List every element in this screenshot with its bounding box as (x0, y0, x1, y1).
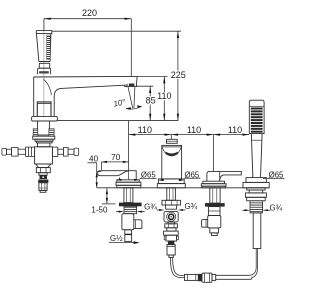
svg-text:220: 220 (82, 8, 97, 18)
unit B: below-deck stem (167, 188, 176, 201)
dimension 220 (44, 19, 131, 77)
side view: body pedestal panel (37, 102, 51, 117)
side view: handle grip hatch (47, 35, 51, 60)
side view: clamp stud right (49, 129, 54, 136)
side view: tail neck (39, 173, 47, 176)
side view: left supply arm (2, 147, 35, 156)
label diameter 65 unit A (140, 177, 157, 179)
side view: right supply arm (52, 147, 78, 156)
side view: handle lower lines (39, 62, 50, 64)
unit A: threaded shank (124, 206, 137, 213)
spray angle arc (126, 106, 142, 109)
svg-text:G¾: G¾ (144, 203, 157, 212)
hose right section to shower (216, 249, 258, 280)
bottom dimension line (129, 134, 250, 136)
unit D: G3/4 arrows (245, 209, 251, 211)
unit D: hand shower head (249, 100, 264, 133)
dimension 225 (177, 31, 179, 120)
unit A: G3/4 arrows (119, 211, 125, 213)
side view: spout inner channel curve (43, 79, 51, 95)
unit A: diameter 65 arrows (116, 179, 122, 181)
svg-text:G¾: G¾ (269, 204, 282, 213)
side view: lever handle centerline (43, 19, 45, 117)
side view: lower taper (36, 164, 51, 168)
unit B: G3/4 arrows (159, 209, 165, 211)
hose connector assembly (185, 274, 199, 280)
unit C: bottom tube (210, 228, 219, 236)
unit D: holder column (251, 134, 262, 178)
unit B: flange (157, 179, 185, 188)
label diameter 65 unit B (184, 177, 200, 179)
unit B: hose coupling block (164, 211, 178, 222)
unit D: flange (243, 178, 269, 188)
unit C: flange (201, 181, 226, 188)
side view: cross valve body (35, 147, 53, 164)
extension to unit C lever (212, 135, 214, 172)
unit A: locknut dark (119, 203, 142, 207)
dimension 110 vertical (163, 76, 165, 120)
side view: tail dark band 2 (38, 180, 48, 183)
unit D: guide tube (253, 213, 261, 249)
extension line from handle top (52, 30, 181, 32)
extension line aerator (137, 85, 154, 87)
side view: clamp stud left (33, 129, 38, 136)
extension line spout top (137, 75, 167, 77)
bottom dimension row: extension at x=128.6 (128, 121, 130, 171)
svg-text:Ø65: Ø65 (141, 171, 156, 180)
unit A: body block (122, 214, 134, 230)
svg-text:Ø65: Ø65 (185, 170, 200, 179)
side view: faucet body and spout outline (34, 76, 138, 116)
svg-text:40: 40 (89, 155, 99, 164)
svg-text:110: 110 (157, 91, 171, 101)
unit A: bottom tube (125, 230, 132, 242)
svg-text:110: 110 (228, 125, 242, 135)
side view: base plate (32, 116, 58, 121)
unit B: outlet dark band (166, 152, 178, 157)
unit C: side port left (202, 220, 208, 228)
unit B: black band (168, 241, 175, 245)
unit B: lower stack (164, 222, 179, 241)
side view: tail tube (39, 183, 47, 191)
side view: aerator at spout tip (125, 84, 128, 86)
svg-text:Ø65: Ø65 (269, 170, 284, 179)
unit B: knurled nut (162, 200, 181, 205)
svg-text:10°: 10° (113, 97, 127, 108)
unit C: locknut dark (205, 203, 225, 207)
unit B: hose to connector (170, 257, 184, 277)
unit B: spout body front (162, 145, 182, 179)
unit D: threaded shank (250, 201, 263, 213)
deck line side view (57, 120, 178, 122)
unit C: below-deck stem (210, 188, 220, 203)
side view: handle tapering body (36, 33, 51, 61)
label diameter 65 unit D (263, 177, 284, 179)
side view: washer stack (33, 136, 55, 139)
svg-text:85: 85 (146, 95, 156, 105)
unit D: below-deck stack (246, 188, 267, 201)
unit A: mixer front view lever (98, 171, 137, 180)
svg-text:1-50: 1-50 (91, 206, 108, 215)
hose connector: black seal (198, 274, 202, 281)
unit C: valve lever front view (207, 171, 241, 181)
unit B: diverter knob (167, 139, 178, 143)
svg-text:225: 225 (171, 70, 186, 80)
svg-text:G¾: G¾ (184, 202, 197, 211)
unit D: spray face stripes (251, 108, 263, 133)
svg-text:110: 110 (138, 125, 152, 135)
spray angle lines (126, 86, 142, 109)
unit B: shank (165, 205, 176, 209)
side view: handle neck (39, 63, 49, 68)
svg-text:G½: G½ (110, 234, 123, 243)
tick to unit B knob (170, 135, 172, 140)
dimension 85 (149, 86, 151, 120)
unit B: lower cylinder (167, 245, 175, 258)
side view: tail dark band 1 (40, 175, 47, 179)
svg-text:110: 110 (187, 125, 201, 135)
unit B: diameter 65 arrows (158, 179, 164, 181)
side view: hex section (36, 168, 50, 173)
side view: tail tip (40, 190, 46, 192)
unit A: below-deck stem (124, 188, 133, 203)
unit C: body block (208, 216, 221, 228)
unit C: shank (208, 207, 220, 216)
side view: below-deck stem (38, 121, 50, 135)
extension line 220 left (43, 19, 45, 31)
unit A: side port right (134, 220, 142, 229)
hose connector: valve body (202, 273, 216, 282)
side view: handle base (38, 68, 51, 74)
svg-text:70: 70 (111, 153, 121, 162)
unit A: flange (116, 180, 141, 188)
side view: handle top cap (36, 30, 52, 33)
deck line front view (97, 187, 270, 189)
